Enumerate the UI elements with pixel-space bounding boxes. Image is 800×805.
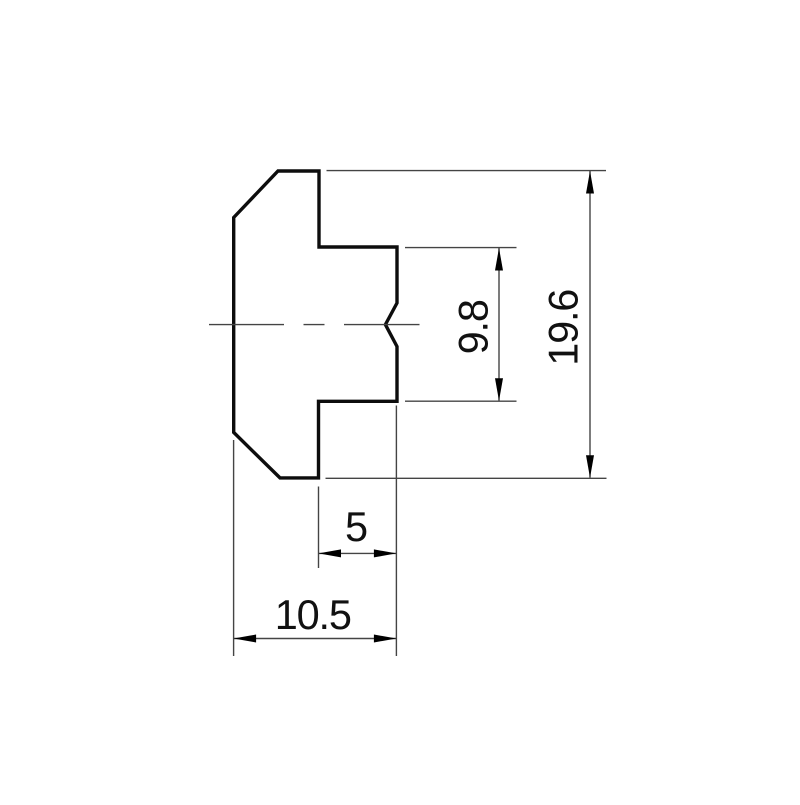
extension line mid (5)	[318, 487, 320, 569]
part outline profile	[234, 171, 397, 478]
dimension line 19.6	[586, 171, 594, 478]
svg-text:5: 5	[345, 503, 367, 550]
centerline	[209, 324, 420, 326]
dimension line 5	[319, 549, 397, 557]
dimension line 10.5	[234, 635, 397, 643]
svg-text:10.5: 10.5	[275, 591, 351, 638]
svg-text:19.6: 19.6	[540, 290, 587, 366]
svg-text:9.8: 9.8	[450, 300, 497, 354]
dimension line 9.8	[495, 248, 503, 401]
extension line top (19.6)	[327, 170, 607, 172]
extension line right (5 / 10.5)	[395, 406, 397, 657]
extension line upper step (9.8)	[405, 247, 517, 249]
extension line lower step (9.8)	[405, 400, 517, 402]
extension line bottom (19.6)	[326, 477, 607, 479]
extension line left (10.5)	[233, 440, 235, 656]
